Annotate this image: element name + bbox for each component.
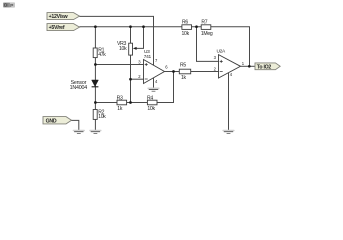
svg-text:CI: CI xyxy=(4,3,8,8)
junction +5V rail / VR3 wiper xyxy=(142,25,145,28)
svg-text:47k: 47k xyxy=(98,52,106,58)
wire U3 output to R5 and U2A pin 2 xyxy=(165,71,219,73)
svg-text:1k: 1k xyxy=(181,75,187,81)
wire feedback drop from U3 output to R4 line xyxy=(157,72,174,103)
wire U2A pin 4 to ground xyxy=(228,73,230,130)
resistor R7 1Meg xyxy=(201,20,213,37)
net flag +5V/ref xyxy=(47,24,80,31)
wire R1 column (+5V to pin3 node) xyxy=(94,27,96,65)
svg-text:10k: 10k xyxy=(98,114,106,120)
junction U2A output / R7 feedback xyxy=(248,65,251,68)
svg-text:3: 3 xyxy=(138,59,141,64)
svg-text:GND: GND xyxy=(46,118,57,124)
resistor R4 10k xyxy=(147,96,157,113)
resistor R5 1k xyxy=(179,62,190,81)
svg-text:1N4004: 1N4004 xyxy=(70,85,88,91)
svg-text:R7: R7 xyxy=(201,20,207,26)
svg-text:U2A: U2A xyxy=(217,49,227,55)
svg-text:4: 4 xyxy=(230,72,233,77)
wire GND flag to ground xyxy=(72,120,79,130)
trimmer VR3 10k xyxy=(117,27,144,55)
junction U3 output / R5 / R4 feedback xyxy=(172,70,175,73)
wire R6/R7 junction down to U2A pin 3 xyxy=(197,27,219,62)
svg-text:To IO2: To IO2 xyxy=(257,64,272,70)
net flag GND xyxy=(43,117,72,125)
svg-text:6: 6 xyxy=(165,65,168,70)
svg-text:10k: 10k xyxy=(182,31,190,37)
svg-text:R6: R6 xyxy=(182,20,188,26)
ground at U2A pin 4 xyxy=(222,130,234,134)
svg-text:R3: R3 xyxy=(117,96,123,102)
wire VR3 top feed xyxy=(130,27,132,44)
op-amp U2A xyxy=(214,49,245,78)
net flag +12V/sw xyxy=(47,13,80,20)
svg-text:1k: 1k xyxy=(117,106,123,112)
svg-text:741: 741 xyxy=(144,54,152,60)
wire VR3 bottom to pin2 node and down to R3 junction xyxy=(130,55,132,102)
resistor R3 1k xyxy=(117,96,127,113)
svg-text:P: P xyxy=(10,3,13,9)
wire +5V rail across to R7 and feedback drop to U2A output xyxy=(80,27,250,67)
wire R2 column below R3 line xyxy=(94,103,96,131)
junction +5V rail / R6-R7 node xyxy=(195,25,198,28)
resistor R6 10k xyxy=(182,20,192,37)
diode D1 Sensor 1N4004 xyxy=(70,80,99,91)
junction R3 / R4 / node B drop xyxy=(129,101,132,104)
svg-text:1Meg: 1Meg xyxy=(201,31,213,37)
node A: R1 / diode / U3 pin 3 xyxy=(94,63,97,66)
junction +5V rail / R1 xyxy=(94,25,97,28)
wire pin2 stub xyxy=(131,78,144,80)
op-amp U3 741 xyxy=(138,49,168,84)
svg-text:2: 2 xyxy=(214,66,217,71)
svg-text:2: 2 xyxy=(138,74,141,79)
wire R3 line xyxy=(95,102,174,104)
wire U3 pin 4 to ground xyxy=(153,78,155,88)
ground for GND flag xyxy=(73,130,85,134)
junction diode cathode / R3 / R2 xyxy=(94,101,97,104)
junction +5V rail / VR3 top xyxy=(129,25,132,28)
svg-text:R4: R4 xyxy=(147,96,153,102)
svg-text:+5V/ref: +5V/ref xyxy=(49,25,65,31)
logo badge top-left xyxy=(3,2,15,8)
ground at U3 pin 4 xyxy=(147,88,159,92)
node B: VR3 bottom / U3 pin 2 xyxy=(129,78,132,81)
wire diode column down to R3 line xyxy=(94,65,96,103)
resistor R2 10k xyxy=(93,110,106,121)
resistor R1 47k xyxy=(93,47,106,57)
wire pin3 line from R1/diode node to U3 xyxy=(95,64,144,66)
svg-text:3: 3 xyxy=(214,55,217,60)
ground under R2 xyxy=(89,130,101,134)
svg-text:7: 7 xyxy=(155,58,158,63)
svg-text:1: 1 xyxy=(242,61,245,66)
svg-text:4: 4 xyxy=(155,79,158,84)
wire +12V rail to U3 pin 7 drop xyxy=(80,16,154,65)
svg-text:10k: 10k xyxy=(147,106,155,112)
svg-text:+12V/sw: +12V/sw xyxy=(49,14,69,20)
svg-text:10k: 10k xyxy=(119,46,127,52)
wire U2A output to flag xyxy=(241,65,256,67)
svg-text:R5: R5 xyxy=(180,62,186,68)
net flag To IO2 xyxy=(255,63,280,71)
